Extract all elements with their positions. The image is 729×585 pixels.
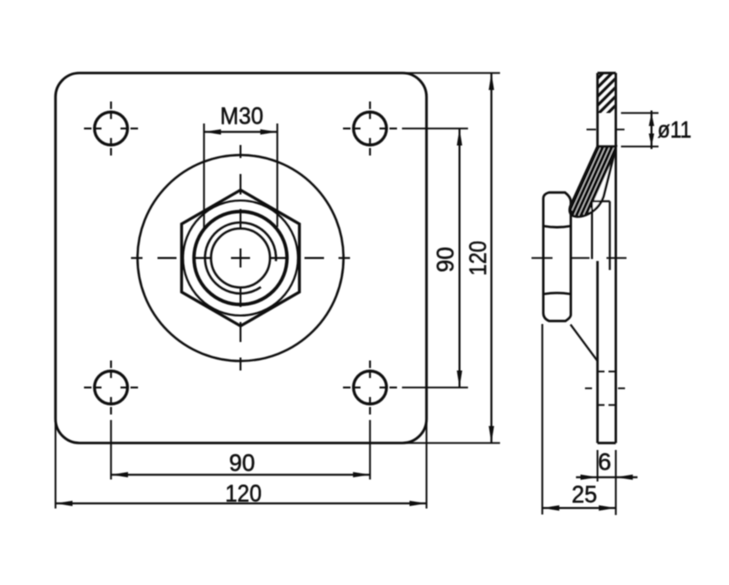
thread outer circle (thick) [194, 212, 287, 305]
weld seam hatch stripes [563, 140, 619, 225]
dimension 6: left arrow (outside) [581, 475, 598, 480]
dimension 120 horizontal: right arrow [410, 501, 427, 506]
dimension 25 (overall depth): extension line and dimension line [542, 324, 616, 515]
flange circle around nut [138, 155, 344, 361]
hex nut M30 outline (front view) [182, 190, 300, 326]
svg-text:25: 25 [572, 482, 598, 509]
section hatching, plate above hole [556, 50, 680, 120]
centerline ticks of sectioned hole (side view) [587, 129, 625, 131]
svg-text:M30: M30 [220, 103, 263, 130]
dimension 90 vertical: bottom arrow [457, 371, 462, 388]
dimension 25: right arrow [599, 505, 616, 510]
weld seam band outline (nut to plate) [570, 147, 616, 217]
centerlines of nut axis [131, 145, 350, 371]
svg-text:120: 120 [225, 481, 262, 508]
svg-text:ø11: ø11 [658, 117, 692, 143]
mounting hole bottom-left (ø11) [95, 371, 128, 404]
dimension 90 horizontal (hole spacing): extension lines and dimension line [111, 420, 370, 480]
dimension M30: extension lines and dimension line [204, 124, 277, 229]
vertical centerline [240, 145, 242, 158]
crosshair centerlines of hole top-left [84, 102, 138, 156]
dimension 25: left arrow [542, 505, 559, 510]
horizontal centerline [131, 257, 143, 259]
dimension 6: right arrow (outside) [616, 475, 633, 480]
svg-text:6: 6 [598, 449, 611, 476]
dimension M30: left arrow [204, 129, 221, 134]
mounting hole top-left (ø11) [95, 112, 128, 145]
dimension 90 horizontal: right arrow [353, 472, 370, 477]
nut axis centerline (side view) [532, 257, 627, 259]
plate outline (120x120 square, rounded corners) [56, 73, 427, 443]
dimension 120 horizontal (plate width): extension lines and dimension line [56, 417, 427, 509]
crosshair centerlines of hole bottom-right [343, 361, 397, 415]
plate cross-section edges (side view) [598, 73, 616, 443]
inner circle [211, 229, 270, 288]
svg-text:120: 120 [465, 241, 492, 276]
crosshair centerlines of hole bottom-left [84, 361, 138, 415]
mounting hole top-right (ø11) [354, 112, 387, 145]
dimension 120 vertical (plate height): extension lines and dimension line [401, 73, 500, 443]
dimension 120 vertical: bottom arrow [489, 426, 494, 443]
dimension 6 (plate thickness): extension lines and dimension line [576, 450, 638, 515]
dimension 120 horizontal: left arrow [56, 501, 73, 506]
svg-text:90: 90 [433, 247, 460, 273]
hex nut M30 silhouette (side view) with facet lines [543, 193, 571, 322]
dimension M30: right arrow [260, 129, 277, 134]
mounting hole bottom-right (ø11) [354, 371, 387, 404]
hidden lower hole (dashed) with centerline ticks [585, 372, 625, 406]
thread arc with gap (3/4) [205, 223, 276, 294]
dimension 90 vertical (hole spacing): extension lines and dimension line [402, 129, 468, 388]
dimension ø11 (hole dia, side view): extension lines and dimension line [621, 111, 659, 150]
lower weld line nut-to-plate [571, 325, 598, 362]
dimension 90 vertical: top arrow [457, 129, 462, 146]
crosshair centerlines of hole top-right [343, 102, 397, 156]
nut chamfer circle [183, 201, 298, 316]
dimension ø11: bottom arrow [649, 134, 654, 147]
dimension 90 horizontal: left arrow [111, 472, 128, 477]
dimension 120 vertical: top arrow [489, 73, 494, 90]
dimension ø11: top arrow [649, 113, 654, 126]
svg-text:90: 90 [229, 450, 255, 477]
washer / boss edge lines behind nut [592, 201, 610, 270]
